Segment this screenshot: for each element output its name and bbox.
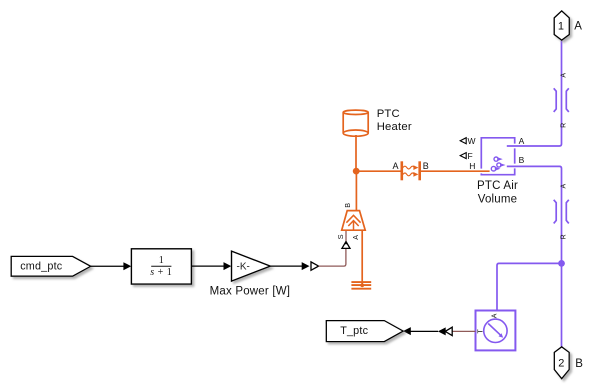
svg-text:PTC: PTC: [377, 108, 400, 120]
svg-text:cmd_ptc: cmd_ptc: [20, 260, 63, 272]
wire heat source A to ground: [361, 230, 363, 285]
svg-text:Volume: Volume: [478, 193, 518, 205]
conductive heat transfer block: [392, 161, 428, 181]
restriction 2 brackets: [554, 184, 569, 240]
svg-text:1: 1: [159, 255, 164, 266]
junction orange: [353, 168, 360, 175]
svg-text:R: R: [561, 234, 568, 239]
wire converter to T_ptc: [403, 327, 438, 335]
junction purple: [558, 260, 565, 267]
svg-text:s + 1: s + 1: [150, 267, 172, 278]
svg-text:T: T: [477, 328, 484, 333]
PS wire converter to heat source S port: [319, 249, 346, 267]
svg-text:PTC Air: PTC Air: [477, 180, 518, 192]
svg-text:Max Power [W]: Max Power [W]: [210, 286, 291, 298]
wire air volume A to port A: [507, 40, 562, 146]
converter output arrow: [438, 327, 446, 335]
input tag cmd_ptc: [11, 256, 91, 276]
svg-text:1: 1: [558, 21, 564, 33]
svg-text:A: A: [574, 21, 582, 33]
wire conduction B to air volume H: [421, 170, 490, 172]
svg-text:2: 2: [558, 358, 564, 370]
svg-text:W: W: [468, 136, 476, 146]
transfer function block 1/(s+1): [131, 249, 191, 284]
svg-text:B: B: [343, 203, 352, 208]
wire heater to junction: [355, 135, 357, 171]
wire air volume B to port B: [507, 166, 562, 346]
svg-text:A: A: [519, 136, 525, 146]
port 1 A: [554, 11, 582, 40]
thermal reference ground: [351, 282, 371, 289]
svg-text:-K-: -K-: [237, 261, 250, 272]
svg-text:A: A: [491, 313, 498, 318]
svg-text:H: H: [469, 161, 475, 171]
PTC air volume block: [460, 136, 524, 206]
wire heat source B to junction: [355, 171, 357, 210]
port 2 B: [554, 347, 583, 379]
svg-text:A: A: [561, 73, 568, 78]
restriction 1 brackets: [554, 73, 569, 128]
output tag T_ptc: [326, 321, 403, 342]
svg-text:T_ptc: T_ptc: [340, 325, 368, 337]
PS port triangle at converter (left): [445, 327, 452, 335]
svg-text:F: F: [468, 151, 473, 161]
svg-text:B: B: [423, 161, 429, 171]
svg-text:S: S: [336, 234, 345, 239]
svg-text:B: B: [519, 155, 525, 165]
PS stub into heat source S: [345, 230, 347, 241]
wire junction to conduction block: [356, 170, 400, 172]
wire transfer function to gain: [191, 262, 231, 270]
svg-text:A: A: [351, 235, 360, 240]
svg-text:A: A: [561, 184, 568, 189]
PS input port triangle (converter): [311, 262, 319, 270]
wire junction to sensor: [497, 263, 562, 310]
controlled heat flow rate source: [336, 203, 365, 240]
PS port triangle at heat source S: [342, 241, 350, 248]
wire cmd_ptc to transfer function: [91, 262, 132, 270]
temperature sensor: [476, 311, 516, 351]
gain block Max Power [W]: [210, 251, 291, 298]
svg-text:B: B: [575, 358, 583, 370]
wire gain to converter: [270, 262, 309, 270]
svg-text:A: A: [392, 161, 398, 171]
PTC heater thermal mass: [343, 108, 412, 136]
svg-text:Heater: Heater: [377, 121, 412, 133]
svg-text:R: R: [561, 123, 568, 128]
PS wire sensor to converter: [452, 330, 475, 332]
